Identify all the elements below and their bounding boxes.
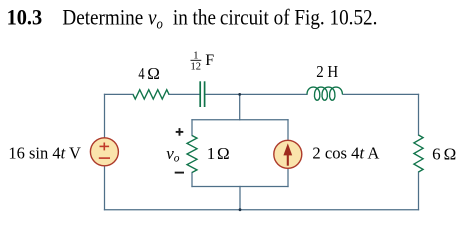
svg-text:2 H: 2 H (316, 62, 338, 81)
svg-text:4: 4 (138, 64, 145, 83)
svg-text:Ω: Ω (217, 144, 230, 163)
svg-text:2 cos 4t A: 2 cos 4t A (312, 143, 380, 162)
svg-text:10.3: 10.3 (7, 4, 43, 29)
svg-text:1: 1 (207, 144, 216, 163)
svg-text:Ω: Ω (147, 64, 160, 83)
svg-text:6: 6 (432, 144, 441, 163)
svg-text:12: 12 (191, 62, 202, 73)
svg-text:Determine vo in the circuit of: Determine vo in the circuit of Fig. 10.5… (62, 4, 377, 32)
svg-text:F: F (205, 52, 214, 69)
svg-text:16 sin 4t V: 16 sin 4t V (8, 143, 81, 162)
svg-text:Ω: Ω (444, 144, 457, 163)
